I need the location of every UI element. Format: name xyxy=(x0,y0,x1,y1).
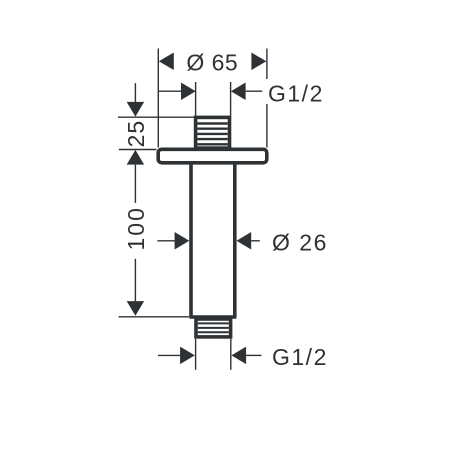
extension line at thread top (25 upper bound) xyxy=(118,116,195,118)
flange (ceiling escutcheon) xyxy=(158,149,267,163)
extension line left below bottom thread xyxy=(195,339,197,370)
arrowhead right Ø26 xyxy=(237,232,252,250)
svg-text:G1/2: G1/2 xyxy=(272,344,328,370)
dimension line of 100 upper segment xyxy=(134,165,136,203)
dimension line of 100 lower segment xyxy=(134,259,136,302)
arrowhead left top G1/2 xyxy=(181,82,196,100)
top thread crest line 1 xyxy=(197,122,227,124)
arrowhead up at top of 100 xyxy=(127,150,144,165)
top thread root band xyxy=(194,146,231,149)
leader line left of top G1/2 xyxy=(158,90,181,92)
bottom thread crest line 2 xyxy=(198,327,229,329)
leader line right of Ø26 xyxy=(251,240,260,242)
bottom thread body xyxy=(196,319,231,337)
extension line left of Ø65 dimension xyxy=(157,49,159,148)
svg-text:25: 25 xyxy=(123,120,149,148)
arrowhead down at top of 25 xyxy=(127,102,144,117)
svg-text:Ø 65: Ø 65 xyxy=(186,50,238,76)
top thread crest line 3 xyxy=(197,133,227,135)
dimension line tail above 25 xyxy=(134,83,136,103)
arrowhead left Ø26 xyxy=(175,232,190,250)
top thread crest line 2 xyxy=(197,127,227,129)
arrowhead right Ø65 xyxy=(251,53,266,71)
arrowhead right bottom G1/2 xyxy=(231,347,246,365)
leader line right of bottom G1/2 xyxy=(246,354,261,356)
extension line right of Ø65 dimension (broken by G1/2 text halo) xyxy=(266,49,268,80)
svg-text:Ø 26: Ø 26 xyxy=(272,230,328,256)
arrowhead left bottom G1/2 xyxy=(180,347,195,365)
top thread crest line 5 xyxy=(197,143,227,145)
bottom thread crest line 1 xyxy=(198,322,229,324)
extension line right below bottom thread xyxy=(230,339,232,370)
svg-text:100: 100 xyxy=(123,206,149,250)
arrowhead down at bottom of 100 xyxy=(127,301,144,316)
bottom thread crest line 3 xyxy=(198,331,229,333)
svg-text:G1/2: G1/2 xyxy=(268,80,324,106)
arrowhead right top G1/2 xyxy=(231,82,246,100)
leader line left of Ø26 xyxy=(157,240,175,242)
arrowhead left Ø65 xyxy=(159,53,174,71)
top thread crest line 4 xyxy=(197,138,227,140)
extension line at pipe bottom (100 lower bound) xyxy=(119,316,190,318)
extension line right of top thread xyxy=(230,82,232,116)
extension line at flange top (25 lower bound) xyxy=(119,149,157,151)
extension line left of top thread xyxy=(195,82,197,116)
top thread body xyxy=(196,117,230,149)
leader line left of bottom G1/2 xyxy=(158,354,181,356)
pipe body xyxy=(189,163,236,317)
leader line right of top G1/2 xyxy=(246,90,263,92)
